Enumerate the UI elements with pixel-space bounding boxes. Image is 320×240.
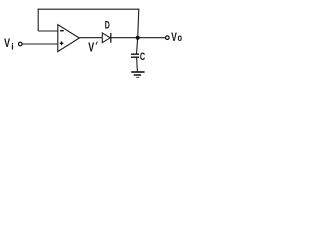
svg-text:D: D xyxy=(105,19,110,31)
op-amp plus sign xyxy=(60,41,64,45)
output terminal circle xyxy=(166,36,170,40)
ground symbol xyxy=(131,72,144,77)
svg-text:o: o xyxy=(178,32,183,43)
wire op-amp output to diode xyxy=(79,37,102,39)
node junction dot xyxy=(136,36,140,40)
wire capacitor to ground xyxy=(136,57,139,72)
capacitor C top plate xyxy=(131,53,139,55)
wire feedback into inverting input xyxy=(38,30,58,32)
wire feedback right vertical xyxy=(138,9,139,38)
op-amp minus sign xyxy=(60,30,64,32)
wire feedback top horizontal xyxy=(38,8,140,10)
wire node down to capacitor xyxy=(137,38,138,55)
diode D triangle xyxy=(102,33,110,43)
svg-text:V: V xyxy=(171,32,177,45)
diode D cathode bar xyxy=(110,33,112,43)
svg-text:V: V xyxy=(88,41,95,55)
svg-text:C: C xyxy=(140,51,146,63)
op-amp U1 triangle xyxy=(58,25,80,52)
capacitor C bottom plate xyxy=(131,56,139,58)
wire diode to output terminal xyxy=(111,37,166,39)
svg-text:i: i xyxy=(11,41,13,51)
svg-text:V: V xyxy=(4,37,10,51)
wire Vi to non-inverting input xyxy=(22,43,58,45)
input terminal circle xyxy=(19,42,23,46)
wire feedback left vertical xyxy=(37,9,39,31)
